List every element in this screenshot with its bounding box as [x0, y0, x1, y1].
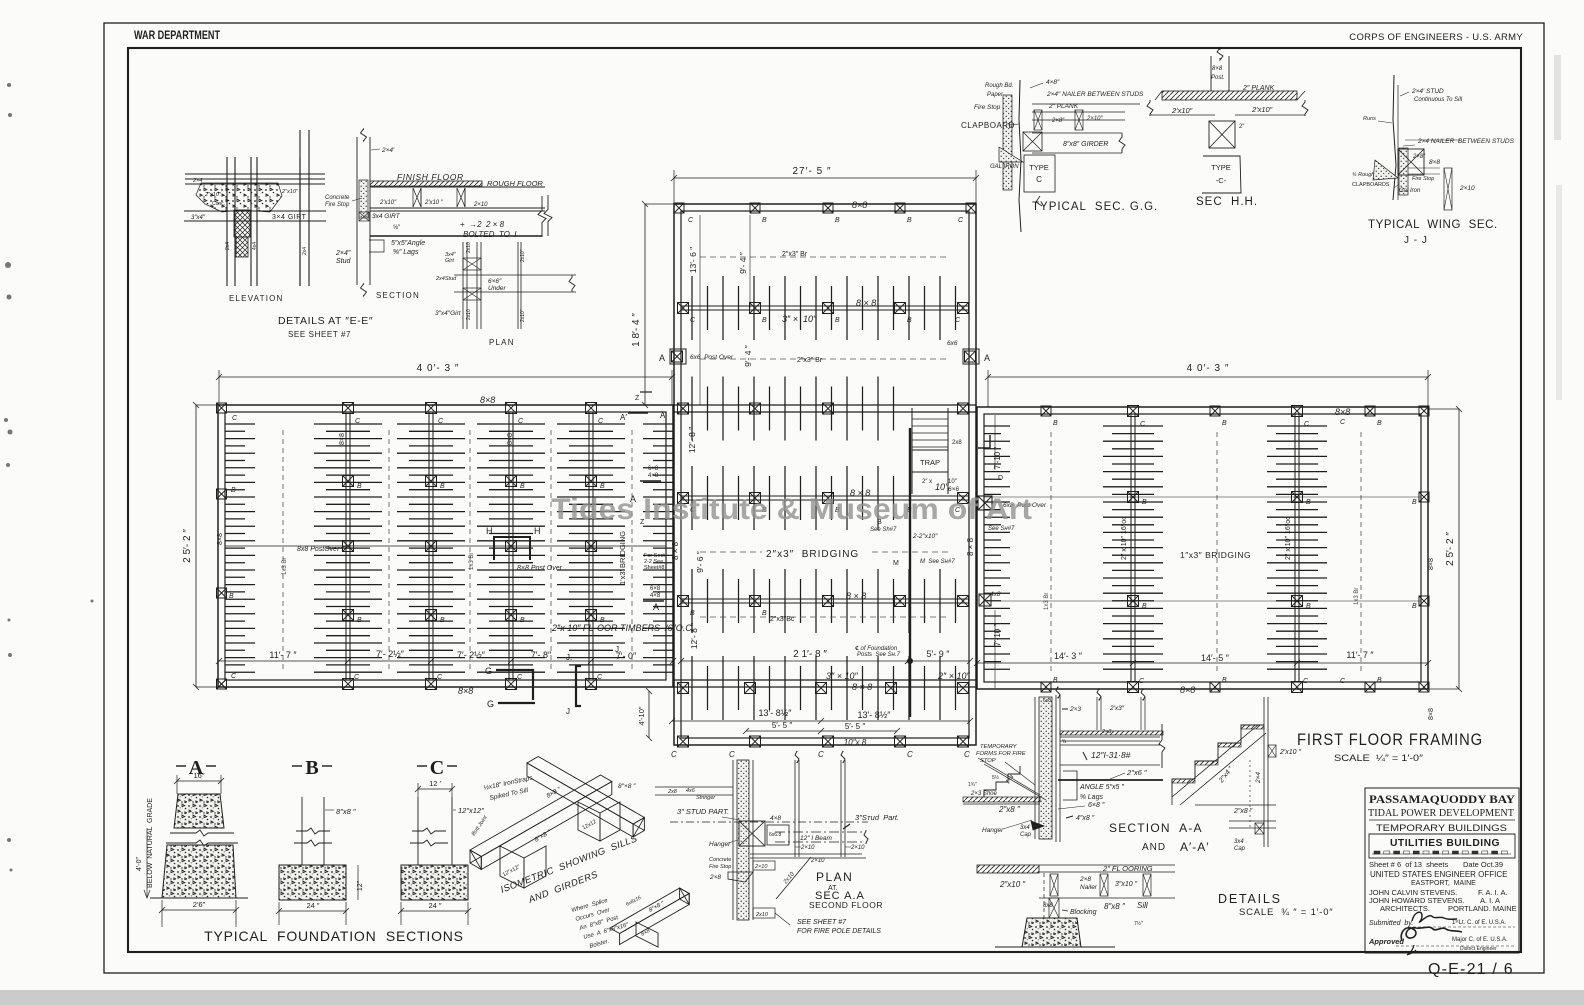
svg-text:Q-E-21 / 6: Q-E-21 / 6 [1428, 961, 1514, 978]
svg-text:2″ PLANK: 2″ PLANK [1242, 85, 1275, 92]
svg-text:G: G [485, 666, 492, 676]
svg-text:⅝ Lags: ⅝ Lags [1080, 794, 1103, 801]
svg-text:B: B [440, 483, 445, 490]
svg-text:8″x8 ″: 8″x8 ″ [336, 807, 356, 816]
svg-text:7′-10 ″: 7′-10 ″ [993, 447, 1002, 470]
svg-text:8″×8 ″: 8″×8 ″ [618, 783, 636, 790]
svg-text:2 5′- 2 ″: 2 5′- 2 ″ [1445, 532, 1456, 566]
svg-text:4′-10″: 4′-10″ [637, 706, 646, 725]
svg-text:B: B [600, 483, 605, 490]
svg-text:12″ I Beam: 12″ I Beam [800, 835, 833, 842]
svg-text:Sheet#8: Sheet#8 [644, 565, 665, 571]
svg-text:See Sh#7: See Sh#7 [870, 527, 897, 533]
svg-text:4×8: 4×8 [648, 473, 659, 479]
svg-text:2x10: 2x10 [466, 242, 472, 253]
svg-text:B: B [1222, 677, 1227, 684]
svg-text:24 ″: 24 ″ [306, 901, 319, 910]
svg-text:B: B [835, 317, 840, 324]
svg-text:9′- 6 ″: 9′- 6 ″ [695, 551, 705, 573]
svg-text:2″ x 10″ 16″oc: 2″ x 10″ 16″oc [1121, 516, 1128, 560]
svg-text:6×6: 6×6 [948, 486, 959, 493]
svg-text:5½: 5½ [992, 774, 1000, 781]
svg-text:B: B [1222, 420, 1227, 427]
svg-text:Nailer: Nailer [1080, 884, 1098, 891]
svg-text:2″x10″: 2″x10″ [281, 189, 299, 195]
svg-text:Fire Stop: Fire Stop [325, 202, 350, 208]
svg-text:BELOW NATURAL GRADE: BELOW NATURAL GRADE [147, 798, 154, 888]
svg-text:13′- 8½″: 13′- 8½″ [858, 710, 892, 720]
svg-text:1x3 Br: 1x3 Br [1044, 593, 1050, 610]
svg-text:8 × 8: 8 × 8 [856, 298, 876, 308]
svg-text:Concrete: Concrete [325, 195, 350, 201]
svg-text:2×4: 2×4 [1255, 772, 1262, 784]
svg-text:A′: A′ [660, 411, 667, 420]
svg-text:6x6 Post Over: 6x6 Post Over [690, 354, 734, 361]
svg-text:B: B [762, 317, 767, 324]
svg-text:Cap: Cap [1234, 846, 1246, 852]
svg-text:13′- 6 ″: 13′- 6 ″ [688, 247, 698, 273]
svg-text:4×8: 4×8 [650, 593, 661, 599]
svg-text:6x6: 6x6 [947, 340, 958, 347]
svg-text:2″ x: 2″ x [922, 479, 932, 485]
svg-text:B: B [690, 610, 695, 617]
svg-text:12″I-31·8#: 12″I-31·8# [1091, 750, 1131, 760]
svg-text:2×4: 2×4 [192, 178, 202, 184]
svg-text:1x3 Br: 1x3 Br [469, 553, 475, 570]
svg-text:8×8: 8×8 [480, 395, 495, 405]
svg-text:2×8″: 2×8″ [1051, 118, 1065, 124]
svg-text:8×8: 8×8 [1180, 685, 1195, 695]
svg-text:Fire Stop: Fire Stop [709, 864, 731, 870]
svg-text:Post.: Post. [1211, 75, 1225, 81]
svg-text:B: B [1412, 603, 1417, 610]
svg-text:Continuous To Sill: Continuous To Sill [1414, 97, 1463, 103]
svg-text:1ˢᵗLt. C. of E. U.S.A.: 1ˢᵗLt. C. of E. U.S.A. [1452, 919, 1506, 926]
svg-text:TYPICAL FOUNDATION SECTIONS: TYPICAL FOUNDATION SECTIONS [204, 928, 464, 944]
svg-text:4×8″: 4×8″ [1046, 79, 1060, 86]
svg-text:2″ × 10″: 2″ × 10″ [937, 671, 970, 681]
svg-text:M See Sн#7: M See Sн#7 [920, 559, 955, 565]
svg-text:4x4: 4x4 [252, 242, 258, 250]
svg-text:7′- 2½″: 7′- 2½″ [457, 650, 486, 660]
svg-text:B: B [231, 487, 236, 494]
svg-text:5′- 5 ″: 5′- 5 ″ [772, 721, 793, 730]
svg-text:2×10: 2×10 [754, 864, 768, 870]
svg-text:2″x3″ Br: 2″x3″ Br [782, 251, 808, 258]
svg-text:6x8: 6x8 [1043, 698, 1051, 704]
svg-text:A: A [984, 353, 990, 363]
svg-text:SECTION A-A: SECTION A-A [1109, 821, 1203, 835]
svg-text:GAL IRON: GAL IRON [990, 164, 1019, 170]
svg-text:Approved: Approved [1368, 937, 1404, 946]
svg-text:1x3 Br: 1x3 Br [1354, 588, 1360, 605]
svg-text:H: H [534, 526, 541, 536]
svg-text:2×10: 2×10 [473, 202, 488, 208]
svg-text:14′- 5 ″: 14′- 5 ″ [1201, 653, 1230, 663]
svg-text:2x8: 2x8 [952, 440, 962, 446]
svg-text:5′- 5 ″: 5′- 5 ″ [845, 722, 866, 731]
svg-text:Girt: Girt [445, 258, 454, 264]
svg-text:2x10: 2x10 [755, 912, 769, 918]
svg-text:Submitted by.: Submitted by. [1369, 920, 1413, 927]
svg-text:2″x10 ″: 2″x10 ″ [999, 880, 1026, 889]
svg-text:1x3 Br: 1x3 Br [282, 558, 288, 575]
svg-text:2x10: 2x10 [466, 309, 472, 320]
svg-text:G: G [487, 699, 494, 709]
svg-text:B: B [520, 483, 525, 490]
svg-text:C: C [1036, 175, 1042, 184]
svg-text:SCALE ¼″ = 1′-0″: SCALE ¼″ = 1′-0″ [1334, 753, 1424, 764]
svg-text:DETAILS: DETAILS [1218, 892, 1282, 906]
svg-text:Posts See Sн.7: Posts See Sн.7 [857, 652, 901, 658]
svg-text:2×3 Shoe: 2×3 Shoe [970, 791, 998, 797]
svg-text:12 ′: 12 ′ [429, 779, 441, 788]
svg-text:2×10: 2×10 [800, 845, 815, 851]
svg-text:Fire Stop: Fire Stop [974, 104, 1001, 111]
svg-text:9′- 4 ″: 9′- 4 ″ [738, 252, 748, 274]
svg-text:FINISH FLOOR: FINISH FLOOR [397, 172, 464, 182]
svg-text:B: B [1053, 420, 1058, 427]
svg-text:M: M [893, 560, 899, 567]
svg-text:2 1′- 8 ″: 2 1′- 8 ″ [793, 649, 827, 660]
svg-text:3x4: 3x4 [1020, 825, 1030, 831]
svg-text:8 × 8: 8 × 8 [671, 541, 680, 560]
svg-text:10″x 8: 10″x 8 [844, 738, 867, 747]
svg-text:8×8: 8×8 [339, 433, 346, 445]
svg-text:B: B [1377, 420, 1382, 427]
svg-text:C: C [729, 750, 735, 759]
svg-text:2″x6 ″: 2″x6 ″ [1126, 768, 1147, 777]
svg-text:Hanger: Hanger [982, 827, 1004, 834]
svg-text:2×10: 2×10 [850, 845, 865, 851]
svg-text:District Engineer: District Engineer [1460, 946, 1497, 952]
svg-text:B: B [907, 217, 912, 224]
svg-text:⅝″ Lags: ⅝″ Lags [393, 249, 419, 256]
svg-text:14′- 3 ″: 14′- 3 ″ [1054, 651, 1083, 661]
svg-text:2′x10″: 2′x10″ [1251, 105, 1273, 114]
svg-text:B: B [835, 217, 840, 224]
svg-text:FIRST FLOOR FRAMING: FIRST FLOOR FRAMING [1297, 731, 1483, 749]
svg-text:PLAN: PLAN [489, 338, 515, 347]
svg-text:8×8: 8×8 [217, 533, 224, 545]
svg-text:Stud: Stud [336, 258, 352, 265]
svg-text:2×10: 2×10 [810, 858, 825, 864]
svg-text:CORPS OF ENGINEERS - U.S. ARMY: CORPS OF ENGINEERS - U.S. ARMY [1349, 32, 1523, 43]
svg-text:8″x8 ″: 8″x8 ″ [1104, 902, 1126, 911]
svg-text:2′x10 ″: 2′x10 ″ [424, 200, 444, 206]
svg-text:9′- 4 ″: 9′- 4 ″ [743, 345, 753, 367]
svg-text:8×8: 8×8 [1335, 407, 1350, 417]
svg-text:C: C [430, 757, 444, 779]
svg-text:24 ″: 24 ″ [428, 901, 441, 910]
svg-text:PASSAMAQUODDY BAY: PASSAMAQUODDY BAY [1369, 792, 1515, 806]
svg-text:TYPE: TYPE [1211, 163, 1231, 172]
svg-text:Sheet # 6 of 13 sheets: Sheet # 6 of 13 sheets [1369, 860, 1448, 869]
svg-text:UNITED STATES ENGINEER OFFICE: UNITED STATES ENGINEER OFFICE [1370, 870, 1508, 879]
svg-text:1″x3″ BRIDGING: 1″x3″ BRIDGING [1180, 550, 1251, 560]
svg-text:Under: Under [488, 285, 507, 292]
svg-text:B: B [762, 610, 767, 617]
svg-text:8″x8″ GIRDER: 8″x8″ GIRDER [1063, 141, 1108, 148]
svg-text:Paper: Paper [987, 92, 1004, 98]
svg-text:2×4″: 2×4″ [335, 250, 351, 257]
svg-text:3″ × 10″: 3″ × 10″ [782, 314, 817, 324]
svg-text:TEMPORARY: TEMPORARY [980, 744, 1018, 750]
svg-text:2×4″ NAILER BETWEEN STUDS: 2×4″ NAILER BETWEEN STUDS [1046, 91, 1144, 98]
svg-text:A′: A′ [620, 413, 627, 422]
svg-text:2×4′: 2×4′ [381, 147, 395, 154]
svg-text:Stringer: Stringer [696, 795, 716, 801]
svg-text:2″: 2″ [1239, 124, 1245, 130]
svg-text:CLAPBOARD: CLAPBOARD [961, 121, 1015, 130]
svg-text:7′- 2½″: 7′- 2½″ [376, 649, 405, 659]
svg-text:1 8′- 4 ″: 1 8′- 4 ″ [631, 313, 642, 347]
svg-text:AND: AND [1142, 842, 1166, 853]
svg-text:3″ STUD PART.: 3″ STUD PART. [677, 807, 729, 816]
svg-text:B: B [1377, 677, 1382, 684]
svg-text:3″Sᴛud Part.: 3″Sᴛud Part. [855, 813, 899, 822]
svg-text:2″x8 ″: 2″x8 ″ [1233, 808, 1253, 815]
svg-text:B: B [1053, 677, 1058, 684]
svg-text:A: A [653, 602, 659, 612]
svg-text:B: B [1142, 499, 1147, 506]
svg-text:11′- 7 ″: 11′- 7 ″ [1346, 650, 1374, 660]
svg-text:SECTION: SECTION [376, 291, 420, 300]
svg-text:2×10: 2×10 [1459, 185, 1475, 192]
svg-text:PORTLAND. MAINE: PORTLAND. MAINE [1448, 904, 1517, 913]
svg-text:FOR FIRE POLE DETAILS: FOR FIRE POLE DETAILS [797, 928, 881, 935]
svg-text:ELEVATION: ELEVATION [229, 294, 284, 303]
svg-text:J - J: J - J [1404, 235, 1428, 246]
svg-text:16″: 16″ [194, 771, 205, 780]
svg-text:2″x3″ BRIDGING: 2″x3″ BRIDGING [766, 549, 859, 560]
svg-text:10″: 10″ [935, 482, 949, 492]
svg-text:4x6: 4x6 [686, 788, 696, 794]
svg-text:B: B [305, 757, 318, 779]
svg-text:7′-10 ″: 7′-10 ″ [993, 624, 1002, 647]
svg-text:2 5′- 2 ″: 2 5′- 2 ″ [182, 529, 193, 563]
svg-text:See Sн#7: See Sн#7 [988, 526, 1015, 532]
svg-text:2x10″: 2x10″ [520, 249, 526, 262]
svg-text:2″ PLANK: 2″ PLANK [1048, 103, 1079, 110]
svg-text:B: B [907, 317, 912, 324]
svg-text:4 0′- 3 ″: 4 0′- 3 ″ [1187, 363, 1230, 374]
svg-text:10″: 10″ [948, 479, 958, 485]
svg-text:2″x8 ″: 2″x8 ″ [998, 805, 1021, 814]
svg-text:SECOND FLOOR: SECOND FLOOR [809, 900, 883, 910]
svg-text:℄ of Foundation: ℄ of Foundation [855, 645, 898, 652]
svg-text:2″x3″Bc: 2″x3″Bc [770, 616, 795, 623]
svg-text:SEE SHEET #7: SEE SHEET #7 [288, 330, 351, 339]
svg-text:A: A [659, 353, 665, 363]
svg-text:1'x3' BRIDGING: 1'x3' BRIDGING [618, 531, 627, 585]
svg-text:2×8: 2×8 [1079, 876, 1091, 883]
svg-text:6x6.8: 6x6.8 [769, 832, 781, 838]
svg-text:8×8: 8×8 [1212, 66, 1223, 72]
svg-text:12′- 8 ″: 12′- 8 ″ [687, 427, 697, 453]
svg-text:2×3: 2×3 [1101, 729, 1112, 735]
svg-text:-C-: -C- [1216, 176, 1227, 185]
svg-text:H: H [486, 526, 493, 536]
svg-text:SCALE ¾ ″ = 1′-0″: SCALE ¾ ″ = 1′-0″ [1239, 907, 1333, 918]
svg-text:2′x10 ″: 2′x10 ″ [1279, 749, 1301, 756]
svg-text:Sill: Sill [1137, 901, 1148, 910]
svg-text:7½″: 7½″ [1134, 920, 1143, 927]
svg-text:2′x10″: 2′x10″ [379, 200, 397, 206]
svg-text:5″x5″Angle: 5″x5″Angle [391, 240, 425, 247]
svg-text:3″x10 ″: 3″x10 ″ [1115, 881, 1138, 888]
svg-text:3×4 GIRT: 3×4 GIRT [272, 214, 307, 221]
svg-text:J.: J. [566, 653, 572, 662]
svg-text:8×8: 8×8 [507, 433, 514, 445]
svg-text:C: C [671, 750, 677, 759]
svg-text:FORMS FOR FIRE: FORMS FOR FIRE [976, 751, 1026, 757]
svg-text:4′-0″: 4′-0″ [136, 857, 143, 871]
svg-text:B: B [762, 217, 767, 224]
svg-text:SEE SHEET #7: SEE SHEET #7 [797, 919, 847, 926]
svg-text:Concrete: Concrete [709, 857, 731, 863]
svg-text:8x8 PostOver: 8x8 PostOver [297, 546, 340, 553]
svg-text:2x4: 2x4 [302, 247, 308, 255]
svg-text:Cap: Cap [1020, 832, 1032, 838]
svg-text:TRAP: TRAP [920, 458, 940, 467]
svg-text:ARCHITECTS.: ARCHITECTS. [1380, 904, 1430, 913]
svg-text:3x4: 3x4 [1234, 839, 1244, 845]
svg-text:13′- 8½″: 13′- 8½″ [759, 708, 793, 718]
svg-text:2′6″: 2′6″ [193, 900, 206, 909]
svg-text:C: C [818, 750, 824, 759]
svg-text:ANGLE 5″x5 ″: ANGLE 5″x5 ″ [1079, 784, 1124, 791]
svg-text:6×8: 6×8 [650, 586, 661, 592]
svg-text:EASTPORT, MAINE: EASTPORT, MAINE [1411, 880, 1476, 887]
svg-text:2x8: 2x8 [667, 789, 678, 795]
svg-text:3″ × 10″: 3″ × 10″ [826, 671, 858, 681]
svg-text:27′- 5 ″: 27′- 5 ″ [793, 166, 832, 177]
svg-text:Gal Iron: Gal Iron [1399, 188, 1421, 194]
svg-text:⅝″: ⅝″ [393, 225, 401, 231]
svg-text:8 × 8: 8 × 8 [846, 591, 866, 601]
svg-text:4×8: 4×8 [770, 815, 781, 822]
svg-text:TYPICAL WING SEC.: TYPICAL WING SEC. [1368, 219, 1498, 231]
svg-text:2-2″x10″: 2-2″x10″ [912, 533, 938, 540]
svg-text:7′- 8″: 7′- 8″ [531, 650, 552, 660]
svg-text:Blocking: Blocking [1070, 909, 1097, 916]
svg-text:2″x3″ Br: 2″x3″ Br [797, 357, 823, 364]
svg-text:3″x4″: 3″x4″ [191, 215, 206, 221]
svg-text:Date Oct.39: Date Oct.39 [1463, 860, 1503, 869]
svg-text:2″ x 10″ 16″oc: 2″ x 10″ 16″oc [1285, 516, 1292, 560]
svg-text:8×8: 8×8 [1429, 159, 1440, 166]
svg-text:5′- 9 ″: 5′- 9 ″ [927, 649, 951, 659]
svg-text:2″x10″: 2″x10″ [204, 192, 222, 198]
svg-text:PLAN: PLAN [816, 870, 853, 884]
svg-text:12″x12″: 12″x12″ [458, 806, 484, 815]
svg-text:CLAPBOARDS: CLAPBOARDS [1352, 182, 1390, 188]
svg-text:8×8 Post Over: 8×8 Post Over [517, 565, 563, 572]
svg-text:6×6″: 6×6″ [488, 278, 502, 285]
svg-text:J: J [566, 707, 570, 716]
svg-text:2x4Stud: 2x4Stud [435, 276, 457, 282]
svg-text:Runs: Runs [1363, 116, 1376, 122]
svg-text:2×8: 2×8 [709, 874, 721, 881]
svg-text:Z: Z [635, 395, 640, 402]
svg-text:8×8: 8×8 [1428, 558, 1435, 570]
svg-text:6×8: 6×8 [648, 466, 659, 472]
svg-text:6×8 ″: 6×8 ″ [1088, 802, 1105, 809]
svg-text:2″ FL OORING: 2″ FL OORING [1102, 864, 1153, 873]
svg-text:8×8: 8×8 [458, 686, 473, 696]
svg-text:1¾″: 1¾″ [968, 782, 977, 788]
svg-text:2x10″: 2x10″ [520, 309, 526, 322]
svg-text:D: D [998, 475, 1003, 482]
svg-text:WAR DEPARTMENT: WAR DEPARTMENT [134, 30, 220, 42]
svg-text:B: B [1306, 603, 1311, 610]
svg-text:+ →2 2 × 8: + →2 2 × 8 [460, 220, 505, 229]
svg-text:TYPICAL SEC. G.G.: TYPICAL SEC. G.G. [1032, 201, 1158, 213]
svg-text:TEMPORARY BUILDINGS: TEMPORARY BUILDINGS [1376, 823, 1507, 834]
svg-text:B: B [520, 617, 525, 624]
svg-text:Hanger: Hanger [709, 841, 731, 848]
svg-text:C: C [964, 750, 970, 759]
svg-text:Conc.: Conc. [212, 201, 225, 207]
svg-text:Tides Institute & Museum of Ar: Tides Institute & Museum of Art [551, 493, 1032, 526]
svg-text:DETAILS AT ″E-E″: DETAILS AT ″E-E″ [278, 315, 373, 327]
svg-text:8 × 8: 8 × 8 [852, 682, 872, 692]
svg-text:B: B [357, 617, 362, 624]
svg-text:2×3: 2×3 [1069, 706, 1081, 713]
svg-text:2x4: 2x4 [225, 242, 231, 250]
svg-text:2×10″: 2×10″ [1086, 116, 1104, 122]
svg-text:2′x3″: 2′x3″ [1109, 705, 1125, 712]
svg-text:Major C. of E. U.S.A.: Major C. of E. U.S.A. [1452, 937, 1508, 943]
svg-text:12″: 12″ [357, 880, 364, 891]
svg-text:8×8: 8×8 [1428, 708, 1435, 720]
svg-text:Fire Stop: Fire Stop [1412, 176, 1434, 182]
svg-text:2×4 NAILER BETWEEN STUDS: 2×4 NAILER BETWEEN STUDS [1417, 138, 1515, 145]
svg-text:C: C [907, 750, 913, 759]
svg-text:4 0′- 3 ″: 4 0′- 3 ″ [417, 363, 460, 374]
svg-text:B: B [440, 617, 445, 624]
svg-text:2″x 10″ FL OOR TIMBERS /6″O.: 2″x 10″ FL OOR TIMBERS /6″O.C. [551, 623, 694, 633]
svg-text:B: B [357, 483, 362, 490]
svg-text:8 × 8: 8 × 8 [966, 537, 975, 556]
svg-text:B: B [1142, 603, 1147, 610]
svg-text:3″x4″Girt: 3″x4″Girt [435, 310, 462, 317]
svg-text:B: B [1412, 499, 1417, 506]
svg-text:8×8: 8×8 [852, 200, 867, 210]
svg-text:11′- 7 ″: 11′- 7 ″ [269, 650, 297, 660]
svg-text:3x4 GIRT: 3x4 GIRT [372, 213, 401, 220]
svg-text:TYPE: TYPE [1029, 163, 1049, 172]
svg-text:2′x10″: 2′x10″ [1171, 106, 1193, 115]
svg-text:4x8: 4x8 [990, 591, 1001, 598]
svg-text:UTILITIES BUILDING: UTILITIES BUILDING [1390, 837, 1500, 849]
svg-text:SEC H.H.: SEC H.H. [1196, 196, 1258, 208]
svg-text:4″x8 ″: 4″x8 ″ [1076, 815, 1095, 822]
svg-text:BOLTED TO I: BOLTED TO I [463, 230, 517, 239]
svg-text:Rough Bd.: Rough Bd. [985, 83, 1013, 89]
svg-text:B: B [229, 593, 234, 600]
svg-text:B: B [1306, 499, 1311, 506]
svg-text:TIDAL POWER DEVELOPMENT: TIDAL POWER DEVELOPMENT [1368, 807, 1514, 819]
svg-text:2×4′ STUD: 2×4′ STUD [1411, 88, 1444, 95]
svg-text:A′-A′: A′-A′ [1180, 840, 1210, 854]
svg-text:J.: J. [615, 645, 621, 654]
